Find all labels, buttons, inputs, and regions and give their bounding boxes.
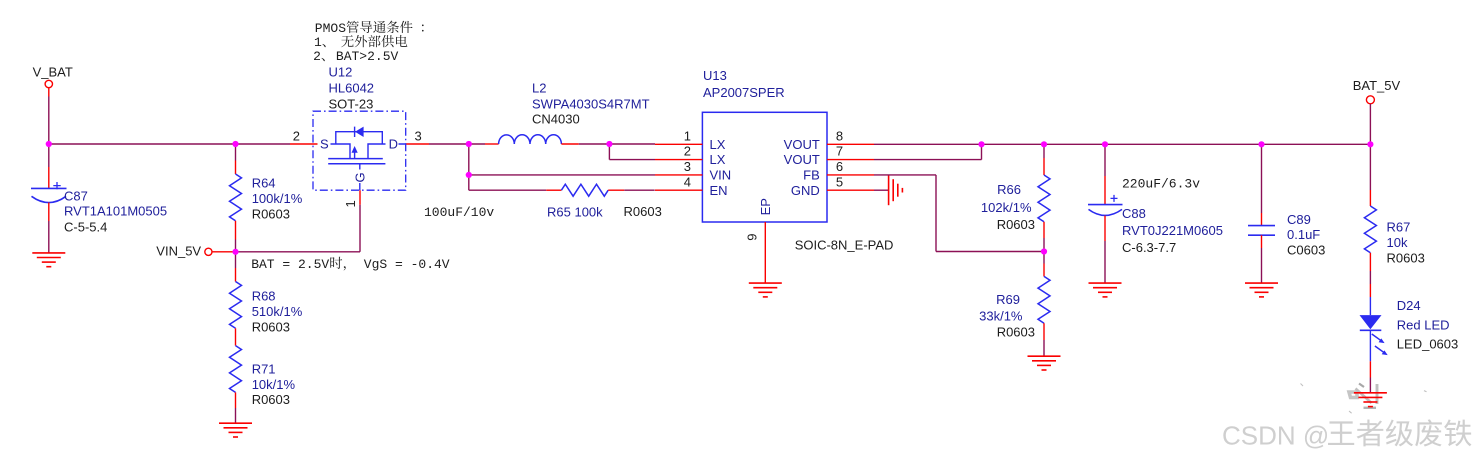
wire pin7 to bus: [874, 159, 982, 161]
svg-text:3: 3: [415, 128, 422, 143]
svg-text:R0603: R0603: [252, 392, 290, 407]
wire R65 stub left: [546, 189, 561, 191]
inductor L2: [499, 135, 562, 144]
svg-text:SWPA4030S4R7MT: SWPA4030S4R7MT: [532, 97, 650, 112]
svg-text:U13: U13: [703, 68, 727, 83]
resistor R66: [1043, 144, 1045, 158]
junction bus/C88: [1102, 141, 1108, 147]
wire L2 pin stub left: [485, 143, 499, 145]
power port V_BAT terminal: [45, 80, 52, 87]
svg-text:1: 1: [314, 35, 322, 50]
svg-text:33k/1%: 33k/1%: [979, 309, 1023, 324]
wire R65 to EN pin: [624, 189, 654, 191]
wire V_BAT pin stub: [48, 88, 50, 97]
resistor R65: [561, 184, 608, 196]
LED emission arrows: [1372, 334, 1384, 352]
svg-text:SOIC-8N_E-PAD: SOIC-8N_E-PAD: [795, 238, 894, 253]
pin 7 VOUT: [827, 159, 874, 161]
svg-text:C87: C87: [64, 188, 88, 203]
resistor R64: [235, 144, 237, 161]
svg-text:510k/1%: 510k/1%: [252, 304, 303, 319]
svg-text:Red LED: Red LED: [1397, 318, 1450, 333]
wire L2 to U13 pin1: [579, 143, 655, 145]
svg-text:VOUT: VOUT: [784, 137, 820, 152]
svg-text:102k/1%: 102k/1%: [981, 200, 1032, 215]
svg-text:AP2007SPER: AP2007SPER: [703, 85, 785, 100]
ground C87: [32, 252, 65, 254]
junction VIN row: [466, 172, 472, 178]
wire main bus left: [48, 143, 290, 145]
wire U12 pin3 stub: [406, 143, 429, 145]
junction LX2 node: [606, 141, 612, 147]
wire R65 stub right: [608, 189, 624, 191]
svg-text:2: 2: [313, 49, 321, 64]
wire LED to ground: [1369, 361, 1371, 377]
svg-text:3: 3: [684, 159, 691, 174]
svg-text:FB: FB: [803, 168, 820, 183]
wire node LX net: [429, 143, 485, 145]
wire L2 pin stub right: [561, 143, 578, 145]
svg-text:EP: EP: [758, 198, 773, 215]
svg-text:PMOS: PMOS: [315, 21, 346, 36]
svg-text:LED_0603: LED_0603: [1397, 337, 1458, 352]
svg-text:100uF/10v: 100uF/10v: [424, 205, 494, 220]
svg-text:R71: R71: [252, 362, 276, 377]
capacitor C88: [1104, 144, 1106, 176]
svg-text:C88: C88: [1122, 206, 1146, 221]
wire down to VIN/EN rows: [468, 144, 470, 190]
junction bus/R64: [232, 141, 238, 147]
pin 4 EN: [655, 189, 702, 191]
svg-text:2: 2: [293, 128, 300, 143]
svg-text:C89: C89: [1287, 212, 1311, 227]
svg-text:R66: R66: [997, 182, 1021, 197]
svg-text:BAT = 2.5V: BAT = 2.5V: [251, 257, 329, 272]
svg-text:S: S: [320, 137, 329, 152]
svg-text:LX: LX: [710, 137, 726, 152]
svg-text:CN4030: CN4030: [532, 112, 580, 127]
junction bus/BAT_5V: [1367, 141, 1373, 147]
svg-text:VOUT: VOUT: [784, 152, 820, 167]
svg-text:D: D: [389, 137, 398, 152]
svg-text:GND: GND: [791, 183, 820, 198]
ground R71: [219, 422, 252, 424]
svg-text:R0603: R0603: [624, 204, 662, 219]
svg-text:5: 5: [836, 174, 843, 189]
power port BAT_5V terminal: [1366, 96, 1374, 104]
svg-text:EN: EN: [710, 183, 728, 198]
svg-text:2: 2: [684, 144, 691, 159]
svg-text:LX: LX: [710, 152, 726, 167]
junction bus/R66: [1041, 141, 1047, 147]
svg-text:220uF/6.3v: 220uF/6.3v: [1122, 176, 1200, 191]
junction FB node: [1041, 248, 1047, 254]
wire pin2 row: [609, 159, 655, 161]
svg-text:SOT-23: SOT-23: [329, 97, 374, 112]
wire U12 pin2 stub: [290, 143, 318, 145]
svg-text:VgS = -0.4V: VgS = -0.4V: [364, 257, 450, 272]
svg-text:10k/1%: 10k/1%: [252, 377, 296, 392]
ground D24: [1354, 392, 1387, 394]
svg-text:4: 4: [684, 174, 691, 189]
wire BAT_5V drop: [1369, 104, 1371, 144]
svg-text:C-5-5.4: C-5-5.4: [64, 220, 107, 235]
svg-text:9: 9: [745, 234, 760, 241]
svg-text:D24: D24: [1397, 298, 1421, 313]
svg-text:VIN_5V: VIN_5V: [156, 244, 201, 259]
diode D24 LED: [1369, 297, 1371, 315]
op-amp U13 body: [702, 112, 827, 222]
resistor R67: [1369, 144, 1371, 190]
svg-text:BAT_5V: BAT_5V: [1353, 78, 1401, 93]
svg-text:V_BAT: V_BAT: [33, 64, 73, 79]
svg-text:R0603: R0603: [997, 325, 1035, 340]
svg-text:G: G: [352, 172, 367, 182]
pin 5 GND: [827, 189, 874, 191]
transistor U12 PMOS: [313, 111, 406, 190]
wire VOUT bus: [874, 143, 1371, 145]
svg-text:VIN: VIN: [710, 168, 732, 183]
wire V_BAT vertical: [48, 97, 50, 145]
svg-text:8: 8: [836, 128, 843, 143]
capacitor C89: [1261, 144, 1263, 213]
svg-text:R0603: R0603: [252, 207, 290, 222]
wire GND pin5: [874, 189, 889, 191]
svg-text:R68: R68: [252, 289, 276, 304]
capacitor C87: [48, 144, 50, 167]
svg-text:10k: 10k: [1387, 235, 1408, 250]
svg-text:C-6.3-7.7: C-6.3-7.7: [1122, 240, 1176, 255]
svg-text:R69: R69: [996, 292, 1020, 307]
wire VIN_5V to U12 gate: [236, 251, 361, 253]
svg-text:R67: R67: [1387, 220, 1411, 235]
resistor R71: [230, 346, 242, 393]
svg-text:CSDN @: CSDN @: [1222, 421, 1329, 451]
svg-text:R0603: R0603: [1387, 251, 1425, 266]
svg-text:U12: U12: [329, 65, 353, 80]
pin 6 FB: [827, 174, 874, 176]
svg-text:1: 1: [343, 200, 358, 207]
svg-text:R0603: R0603: [997, 217, 1035, 232]
ground R69: [1028, 355, 1061, 357]
svg-text:1: 1: [684, 128, 691, 143]
svg-text:R65 100k: R65 100k: [547, 205, 603, 220]
junction VOUT pin7: [978, 141, 984, 147]
ground C88: [1089, 282, 1122, 284]
power port VIN_5V terminal: [205, 248, 212, 255]
resistor R68: [235, 252, 237, 268]
junction bus/C89: [1258, 141, 1264, 147]
wire down to pin2 row: [608, 144, 610, 160]
svg-text:0.1uF: 0.1uF: [1287, 227, 1320, 242]
svg-text:100k/1%: 100k/1%: [252, 191, 303, 206]
wire VIN_5V stub: [212, 251, 235, 253]
svg-text:RVT1A101M0505: RVT1A101M0505: [64, 204, 167, 219]
svg-text:C0603: C0603: [1287, 243, 1325, 258]
watermark smudge: [1301, 384, 1427, 414]
pin 8 VOUT: [827, 143, 874, 145]
junction V_BAT/C87: [46, 141, 52, 147]
svg-text:BAT>2.5V: BAT>2.5V: [336, 49, 399, 64]
junction VIN_5V node: [232, 249, 238, 255]
svg-text:6: 6: [836, 159, 843, 174]
resistor R69: [1043, 252, 1045, 264]
svg-text:RVT0J221M0605: RVT0J221M0605: [1122, 223, 1223, 238]
ground U13 EP: [749, 282, 782, 284]
wire EN row left: [469, 189, 547, 191]
ground pin5 (rotated): [888, 175, 890, 205]
pin 1 LX: [655, 143, 702, 145]
svg-text:L2: L2: [532, 81, 546, 96]
ground C89: [1245, 282, 1278, 284]
pin 3 VIN: [655, 174, 702, 176]
svg-text:7: 7: [836, 144, 843, 159]
wire FB net: [874, 174, 936, 176]
svg-text:HL6042: HL6042: [329, 81, 375, 96]
wire VIN row: [469, 174, 655, 176]
svg-text:R0603: R0603: [252, 320, 290, 335]
svg-text:R64: R64: [252, 176, 276, 191]
junction LX/C? node: [466, 141, 472, 147]
pin 2 LX: [655, 159, 702, 161]
